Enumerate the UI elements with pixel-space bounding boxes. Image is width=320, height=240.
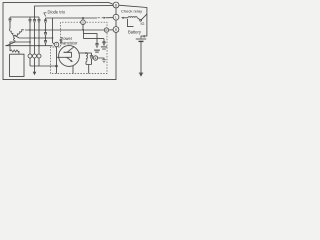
svg-text:E: E: [95, 56, 97, 60]
svg-text:Battery: Battery: [128, 30, 142, 35]
svg-text:L: L: [115, 16, 117, 20]
svg-text:S: S: [82, 20, 84, 24]
svg-text:B: B: [115, 3, 117, 7]
svg-text:transistor: transistor: [61, 41, 78, 46]
svg-text:F: F: [56, 43, 58, 47]
svg-text:Diode trio: Diode trio: [48, 10, 66, 15]
svg-text:IG: IG: [141, 22, 145, 26]
svg-text:R: R: [105, 28, 107, 32]
svg-text:Check relay: Check relay: [121, 9, 142, 14]
